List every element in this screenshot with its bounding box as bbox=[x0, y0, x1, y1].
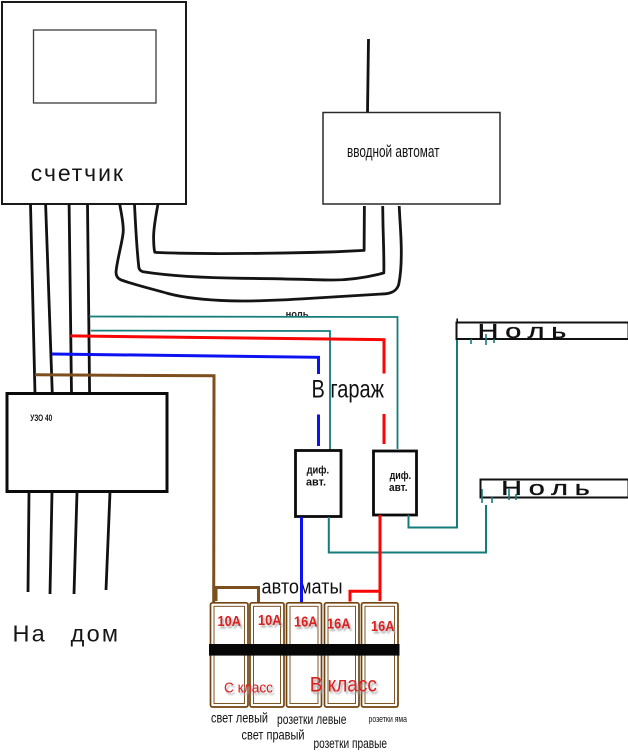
house feed wire 3 below УЗО bbox=[74, 492, 77, 594]
svg-text:10А: 10А bbox=[258, 612, 282, 629]
phase wire L2: meter to УЗО bbox=[46, 204, 53, 394]
svg-text:На дом: На дом bbox=[13, 621, 121, 647]
svg-text:Ноль: Ноль bbox=[478, 321, 574, 343]
blue phase wire segment below text gap bbox=[317, 415, 320, 447]
teal stub under bus 1 bbox=[470, 339, 472, 344]
phase wire L3: meter to УЗО bbox=[69, 204, 71, 394]
phase wire L1: meter to УЗО bbox=[31, 204, 36, 394]
wire: meter to breaker loop inner bbox=[154, 205, 365, 254]
svg-text:розетки правые: розетки правые bbox=[314, 735, 388, 750]
svg-text:16А: 16А bbox=[371, 618, 395, 635]
automat CB1 body bbox=[211, 603, 249, 707]
svg-text:розетки левые: розетки левые bbox=[277, 711, 347, 727]
house feed wire 1 below УЗО bbox=[28, 492, 29, 592]
red phase wire to diff avt 2 bbox=[70, 336, 384, 374]
svg-text:16А: 16А bbox=[327, 615, 351, 632]
neutral bus 2 box (Ноль) bbox=[481, 480, 628, 498]
red phase wire segment below text gap bbox=[383, 414, 386, 444]
svg-text:ноль: ноль bbox=[286, 308, 309, 320]
teal stub under bus 2 bbox=[508, 489, 510, 500]
teal stub under bus 1 bbox=[485, 334, 487, 345]
blue phase wire to diff avt 1 bbox=[52, 354, 319, 374]
neutral teal wire 2: to diff avt 1 bbox=[91, 331, 330, 450]
svg-text:авт.: авт. bbox=[306, 477, 326, 489]
svg-text:счетчик: счетчик bbox=[31, 160, 125, 186]
svg-text:диф.: диф. bbox=[307, 465, 330, 477]
svg-text:УЗО 40: УЗО 40 bbox=[30, 413, 52, 423]
meter box (счетчик) bbox=[2, 2, 186, 204]
diff breaker U2 (диф. авт.) bbox=[374, 451, 417, 515]
svg-text:свет левый: свет левый bbox=[211, 709, 268, 725]
neutral teal wire 1: to diff avt 2 bbox=[89, 317, 397, 450]
incoming supply wire to breaker bbox=[368, 39, 369, 113]
brown branch bracket to automat 2 bbox=[216, 588, 259, 603]
wire: meter to breaker loop middle bbox=[135, 205, 384, 281]
main breaker box (вводной автомат) bbox=[323, 113, 500, 205]
svg-text:В класс: В класс bbox=[310, 674, 377, 697]
house feed wire 4 below УЗО bbox=[106, 492, 110, 590]
svg-text:С класс: С класс bbox=[224, 680, 273, 696]
meter display window bbox=[34, 30, 157, 103]
svg-text:свет правый: свет правый bbox=[242, 727, 305, 743]
wire stub above bus 1 corner bbox=[456, 319, 458, 324]
wire: meter to breaker loop outer bbox=[116, 205, 401, 301]
teal stub under bus 1 bbox=[493, 339, 495, 343]
svg-text:10А: 10А bbox=[218, 613, 242, 630]
automat CB4 body bbox=[325, 603, 360, 707]
svg-text:16А: 16А bbox=[294, 613, 318, 630]
red branch bracket to automat 4 bbox=[350, 591, 380, 601]
phase wire L4: meter to УЗО bbox=[88, 204, 90, 394]
automat CB5 body bbox=[362, 603, 399, 707]
teal output wire: diff avt 2 to Ноль bus 1 bbox=[409, 340, 458, 528]
teal stub under bus 2 bbox=[515, 494, 517, 500]
diff breaker U1 (диф. авт.) bbox=[296, 451, 342, 517]
automat CB3 body bbox=[287, 603, 322, 707]
svg-text:В гараж: В гараж bbox=[312, 375, 385, 403]
teal stub under bus 2 bbox=[481, 489, 483, 503]
brown phase wire to automats bbox=[35, 375, 214, 603]
DIN rail black band bbox=[209, 644, 400, 656]
automat CB2 body bbox=[250, 603, 284, 707]
neutral bus 1 box (Ноль) bbox=[457, 323, 628, 340]
blue output wire: diff avt 1 to automat 3 bbox=[300, 517, 303, 602]
svg-text:авт.: авт. bbox=[389, 482, 408, 494]
УЗО box bbox=[7, 394, 167, 492]
teal output wire: diff avt 1 to Ноль bus 2 bbox=[329, 505, 486, 553]
red output wire: diff avt 2 to automat 5 bbox=[379, 515, 382, 601]
svg-text:розетки яма: розетки яма bbox=[369, 714, 408, 724]
svg-text:вводной автомат: вводной автомат bbox=[347, 142, 440, 161]
house feed wire 2 below УЗО bbox=[50, 492, 52, 594]
svg-text:диф.: диф. bbox=[390, 470, 412, 482]
teal stub under bus 2 bbox=[491, 497, 493, 503]
